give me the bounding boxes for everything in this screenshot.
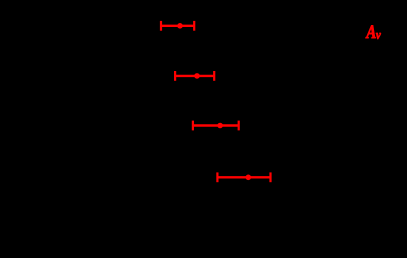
label Av (extinction) [366, 21, 382, 42]
error bar point 4 [217, 172, 270, 182]
svg-text:A: A [366, 21, 377, 42]
svg-text:v: v [376, 27, 381, 42]
error bar point 2 [175, 71, 214, 81]
error bar point 1 [161, 21, 194, 31]
error bar point 3 [193, 121, 239, 131]
